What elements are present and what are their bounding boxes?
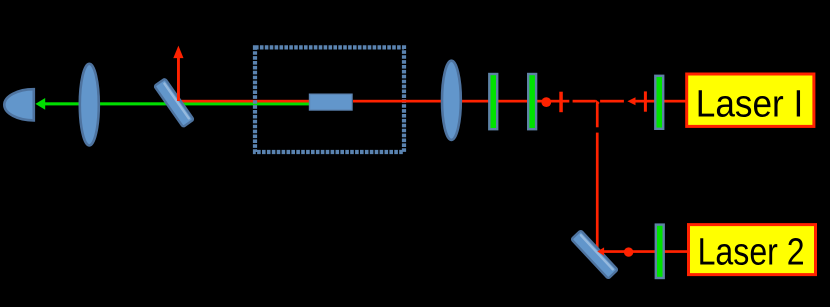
- junction diagonal tick: [595, 100, 599, 103]
- detector PD (half-ellipse photodiode): [4, 89, 34, 120]
- waveplate WP4 (before laser 2): [656, 225, 664, 278]
- beam direction arrowhead (top beam): [627, 97, 635, 105]
- waveplate WP3 (before laser 1): [655, 76, 663, 129]
- svg-text:Laser I: Laser I: [696, 83, 804, 125]
- waveplate WP1: [489, 74, 497, 129]
- red beam segment (break to junction): [573, 100, 596, 103]
- red beam segment (beamsplitter to crystal): [177, 100, 309, 103]
- red beam main (crystal to segment break): [353, 100, 569, 103]
- green beam arrowhead: [35, 98, 45, 110]
- laser 2 box: [689, 225, 816, 275]
- green beam (crystal to detector): [43, 102, 309, 105]
- lens L1: [80, 64, 99, 146]
- dichroic beamsplitter BS (tilted plate): [154, 79, 193, 127]
- laser 1 box: [687, 74, 814, 126]
- polarization dot (top beam): [541, 97, 551, 107]
- polarization tick (top beam, right): [644, 91, 647, 111]
- polarization dot (bottom beam): [624, 247, 633, 256]
- waveplate WP2: [528, 74, 536, 129]
- red beam segment (junction to arrowhead): [600, 100, 624, 103]
- reflected red beam arrow (upward): [177, 57, 180, 101]
- lens L2: [442, 61, 461, 140]
- red beam segment (arrowhead to laser 1): [635, 100, 685, 103]
- beam direction arrowhead (bottom beam): [597, 247, 604, 255]
- polarization tick (top beam, left): [559, 92, 563, 113]
- svg-text:Laser 2: Laser 2: [698, 232, 805, 274]
- red beam laser2 to mirror: [604, 250, 688, 253]
- vertical combined-beam line (junction down to mirror): [596, 102, 599, 128]
- SHG crystal: [310, 94, 353, 110]
- oven enclosure (dashed box): [255, 47, 404, 152]
- steering mirror M1 (tilted): [571, 230, 617, 278]
